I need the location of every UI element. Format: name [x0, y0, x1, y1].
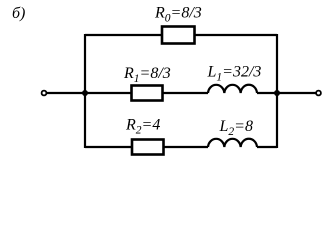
- wire top-left rail: [85, 34, 162, 36]
- wire middle between R1 and L1: [163, 92, 209, 94]
- node right junction: [274, 90, 280, 96]
- wire top-right rail: [195, 34, 278, 36]
- svg-text:R2=4: R2=4: [125, 117, 160, 137]
- terminal right: [316, 91, 321, 96]
- inductor L1: [208, 85, 257, 93]
- terminal left: [42, 91, 47, 96]
- svg-text:L2=8: L2=8: [219, 118, 253, 138]
- svg-text:R1=8/3: R1=8/3: [123, 65, 171, 85]
- inductor L2: [208, 139, 257, 147]
- wire bottom-right rail: [257, 146, 277, 148]
- resistor R0: [162, 27, 195, 44]
- wire middle right lead: [257, 92, 316, 94]
- wire right vertical: [276, 34, 278, 148]
- wire left lead: [47, 92, 132, 94]
- wire bottom between R2 and L2: [164, 146, 209, 148]
- svg-text:R0=8/3: R0=8/3: [154, 5, 202, 25]
- wire bottom-left rail: [85, 146, 132, 148]
- svg-text:L1=32/3: L1=32/3: [207, 64, 262, 84]
- resistor R2: [132, 140, 164, 155]
- resistor R1: [132, 86, 163, 101]
- wire left vertical: [84, 34, 86, 148]
- node left junction: [82, 90, 88, 96]
- svg-text:б): б): [12, 5, 25, 22]
